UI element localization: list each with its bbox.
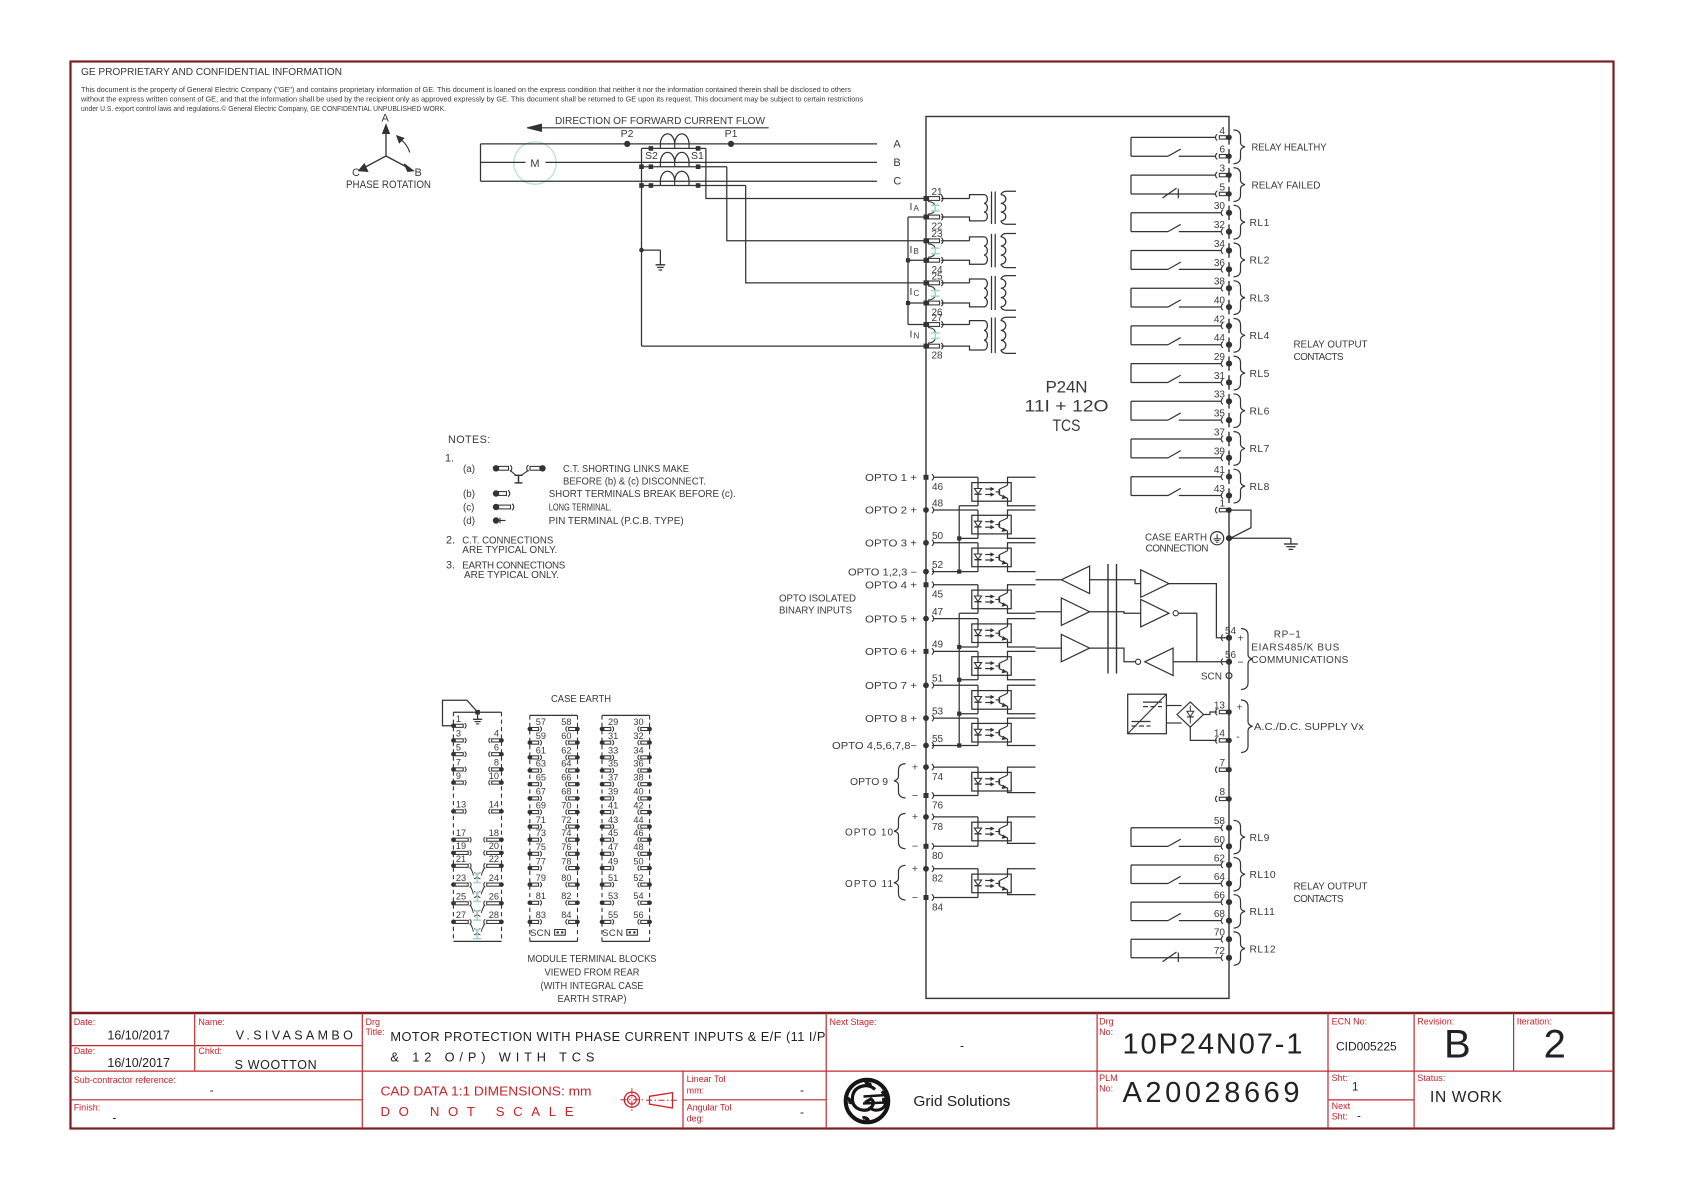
- block1 terminal 1: [451, 714, 466, 728]
- svg-text:C: C: [893, 176, 901, 188]
- terminal 36: [1221, 266, 1223, 272]
- terminal 41: [1221, 474, 1223, 480]
- block1 terminal 21/22: [451, 854, 504, 868]
- wire opto7 cathode to common bus: [959, 713, 978, 715]
- wire U4 to terminal 54: [1169, 584, 1226, 638]
- block terminal 61/62: [528, 746, 580, 760]
- svg-text:17: 17: [456, 828, 466, 838]
- svg-text:50: 50: [932, 531, 944, 542]
- svg-text:S WOOTTON: S WOOTTON: [235, 1058, 317, 1072]
- svg-text:52: 52: [633, 873, 643, 883]
- svg-text:under U.S. export control laws: under U.S. export control laws and regul…: [81, 104, 446, 113]
- terminal 46: [924, 475, 929, 480]
- terminal 48: [923, 507, 929, 513]
- wire bridge to terminal 14: [1190, 727, 1217, 740]
- svg-text:RELAY OUTPUT: RELAY OUTPUT: [1294, 340, 1368, 351]
- junction CT bus - phase C secondary: [639, 183, 644, 188]
- svg-text:64: 64: [561, 759, 571, 769]
- terminal 30: [1221, 210, 1223, 216]
- svg-text:V.SIVASAMBO: V.SIVASAMBO: [236, 1029, 353, 1043]
- svg-text:3: 3: [1219, 164, 1225, 175]
- block1 terminal 27/28: [451, 910, 504, 924]
- terminal 4: [1216, 134, 1218, 140]
- svg-text:62: 62: [1214, 853, 1226, 864]
- CT shorting link hooks 27/28: [928, 328, 935, 334]
- svg-text:55: 55: [932, 734, 944, 745]
- terminal 60: [1221, 843, 1223, 849]
- svg-text:Next Stage:: Next Stage:: [830, 1017, 877, 1027]
- svg-text:I: I: [910, 329, 913, 341]
- svg-text:−: −: [912, 790, 918, 802]
- svg-text:7: 7: [1219, 758, 1225, 769]
- terminal 6: [1216, 153, 1218, 159]
- svg-text:B: B: [1444, 1023, 1471, 1067]
- terminal 29: [1221, 361, 1223, 367]
- svg-text:57: 57: [536, 717, 546, 727]
- svg-text:(b): (b): [463, 489, 475, 500]
- svg-text:MOTOR PROTECTION WITH PHASE CU: MOTOR PROTECTION WITH PHASE CURRENT INPU…: [390, 1029, 825, 1044]
- svg-text:56: 56: [633, 910, 643, 920]
- terminal 34: [1221, 247, 1223, 253]
- case earth symbol: [1211, 532, 1224, 545]
- wire U3-U6 across barrier: [1090, 648, 1136, 662]
- brace RL5: [1234, 356, 1246, 390]
- svg-text:+: +: [912, 761, 918, 773]
- svg-text:Sht:: Sht:: [1332, 1073, 1348, 1083]
- title block grid: [71, 1013, 1614, 1129]
- wire opto 4-8 cathode bus: [959, 612, 978, 614]
- svg-text:RL5: RL5: [1250, 369, 1270, 380]
- svg-text:67: 67: [536, 787, 546, 797]
- relay contact RL3 (terminals 38/40): [1131, 288, 1221, 307]
- terminal 45: [924, 582, 929, 587]
- svg-text:5: 5: [456, 742, 461, 752]
- svg-text:CAD DATA 1:1 DIMENSIONS: mm: CAD DATA 1:1 DIMENSIONS: mm: [381, 1083, 592, 1098]
- svg-text:EARTH STRAP): EARTH STRAP): [558, 994, 627, 1005]
- svg-text:ARE TYPICAL ONLY.: ARE TYPICAL ONLY.: [462, 545, 557, 556]
- terminal 49: [924, 649, 929, 654]
- svg-text:23: 23: [932, 229, 944, 240]
- svg-text:25: 25: [932, 271, 944, 282]
- svg-text:OPTO 3 +: OPTO 3 +: [865, 539, 917, 550]
- svg-text:This document is the property: This document is the property of General…: [81, 85, 851, 94]
- svg-text:48: 48: [932, 498, 944, 509]
- svg-text:18: 18: [489, 828, 499, 838]
- svg-text:IN WORK: IN WORK: [1430, 1089, 1503, 1106]
- svg-text:37: 37: [1214, 427, 1226, 438]
- motor M: [514, 142, 556, 184]
- svg-text:I: I: [910, 244, 913, 256]
- block terminal 41/42: [600, 800, 652, 814]
- terminal 84: [924, 895, 929, 900]
- svg-text:OPTO 4 +: OPTO 4 +: [865, 581, 917, 592]
- svg-text:53: 53: [608, 891, 618, 901]
- GE logo: [846, 1080, 889, 1123]
- optocoupler OPTO 10: [934, 817, 1036, 846]
- svg-text:MODULE TERMINAL BLOCKS: MODULE TERMINAL BLOCKS: [528, 954, 657, 965]
- svg-text:78: 78: [932, 822, 944, 833]
- block1 terminal 9/10: [451, 771, 504, 785]
- terminal 23: [924, 238, 929, 243]
- brace RELAY FAILED: [1234, 168, 1246, 202]
- svg-text:70: 70: [561, 800, 571, 810]
- earth connection of CT common: [642, 250, 666, 270]
- svg-text:RL8: RL8: [1250, 482, 1270, 493]
- wire U6 to terminal 56: [1173, 661, 1226, 663]
- junction CT bus - phase B secondary: [639, 164, 644, 169]
- brace RL12: [1234, 932, 1246, 966]
- svg-text:PHASE ROTATION: PHASE ROTATION: [346, 179, 431, 191]
- relay contact RL7 (terminals 37/39): [1131, 439, 1221, 458]
- relay contact RL12 (terminals 70/72): [1131, 939, 1221, 962]
- block1 terminal 3/4: [451, 729, 504, 743]
- svg-text:60: 60: [561, 731, 571, 741]
- svg-text:SCN: SCN: [1201, 671, 1222, 682]
- junction opto3 cathode / terminal 52: [957, 570, 961, 574]
- svg-text:47: 47: [608, 842, 618, 852]
- svg-text:Finish:: Finish:: [74, 1103, 101, 1113]
- terminal 37: [1221, 436, 1223, 442]
- svg-text:43: 43: [608, 815, 618, 825]
- block1 terminal 23/24: [451, 873, 504, 887]
- block terminal 69/70: [528, 800, 580, 814]
- svg-text:OPTO 4,5,6,7,8−: OPTO 4,5,6,7,8−: [832, 741, 917, 752]
- block terminal 63/64: [528, 759, 580, 773]
- note 1a symbol - shorting link: [493, 465, 546, 483]
- svg-text:Drg: Drg: [1099, 1017, 1114, 1027]
- svg-text:(d): (d): [463, 516, 475, 527]
- brace RL10: [1234, 857, 1246, 891]
- svg-text:30: 30: [633, 717, 643, 727]
- svg-text:−: −: [912, 892, 918, 904]
- svg-text:66: 66: [561, 772, 571, 782]
- svg-text:−: −: [912, 841, 918, 853]
- svg-text:58: 58: [1214, 816, 1226, 827]
- svg-text:-: -: [210, 1083, 214, 1097]
- svg-text:RP−1: RP−1: [1274, 629, 1301, 640]
- relay contact RL4 (terminals 42/44): [1131, 326, 1221, 345]
- buffer U5 (right of barrier, inverting): [1141, 599, 1179, 627]
- svg-text:No:: No:: [1099, 1027, 1113, 1037]
- svg-text:75: 75: [536, 842, 546, 852]
- svg-text:69: 69: [536, 800, 546, 810]
- svg-text:45: 45: [608, 828, 618, 838]
- wire opto10 cathode to terminal 80: [934, 845, 978, 847]
- block terminal 57/58: [528, 717, 580, 731]
- svg-text:(a): (a): [463, 464, 475, 475]
- block1 terminal 7/8: [451, 758, 504, 772]
- block terminal 51/52: [600, 873, 652, 887]
- block terminal 67/68: [528, 787, 580, 801]
- svg-text:36: 36: [633, 759, 643, 769]
- svg-text:A20028669: A20028669: [1123, 1077, 1300, 1109]
- buffer U3 (transmit, left of barrier): [1036, 634, 1090, 662]
- terminal 25: [924, 280, 929, 285]
- svg-text:55: 55: [608, 910, 618, 920]
- block1 terminal 13/14: [451, 800, 504, 814]
- block terminal 55/56: [600, 910, 652, 924]
- terminal 40: [1221, 304, 1223, 310]
- svg-text:I: I: [910, 286, 913, 298]
- block1 terminal 5/6: [451, 742, 504, 756]
- brace RL11: [1234, 895, 1246, 929]
- svg-text:OPTO 9: OPTO 9: [850, 777, 888, 788]
- svg-text:A: A: [893, 138, 901, 150]
- projection symbol: [621, 1088, 679, 1111]
- svg-text:OPTO 10: OPTO 10: [845, 827, 893, 838]
- svg-text:48: 48: [633, 842, 643, 852]
- svg-text:39: 39: [608, 787, 618, 797]
- svg-text:RL7: RL7: [1250, 444, 1270, 455]
- wire U5 to terminal 56: [1178, 613, 1197, 662]
- terminal 74: [923, 764, 929, 770]
- svg-text:32: 32: [633, 731, 643, 741]
- svg-text:RELAY HEALTHY: RELAY HEALTHY: [1252, 143, 1327, 154]
- svg-text:(WITH INTEGRAL CASE: (WITH INTEGRAL CASE: [541, 981, 644, 992]
- svg-text:M: M: [530, 158, 539, 170]
- CT shorting link hooks 25/26: [928, 286, 935, 292]
- relay case outline P24N: [926, 117, 1229, 999]
- svg-text:TCS: TCS: [1053, 416, 1081, 435]
- optocoupler OPTO 11: [934, 869, 1036, 898]
- input transformer IA: [941, 191, 1016, 224]
- junction bus-terminal 26: [906, 301, 910, 305]
- svg-text:ARE TYPICAL ONLY.: ARE TYPICAL ONLY.: [464, 570, 559, 581]
- svg-text:5: 5: [1219, 182, 1225, 193]
- input transformer IC: [941, 276, 1016, 311]
- svg-text:77: 77: [536, 856, 546, 866]
- block terminal 79/80: [528, 873, 580, 887]
- CT shorting link 25/26: [934, 291, 936, 297]
- phase rotation diagram: [346, 113, 431, 192]
- svg-text:29: 29: [608, 717, 618, 727]
- svg-text:I: I: [910, 201, 913, 213]
- svg-text:SHORT TERMINALS BREAK BEFORE (: SHORT TERMINALS BREAK BEFORE (c).: [549, 489, 736, 500]
- terminal 5: [1216, 191, 1218, 197]
- terminal 43: [1221, 492, 1223, 498]
- block terminal 29/30: [600, 717, 652, 731]
- svg-text:P24N: P24N: [1046, 378, 1088, 397]
- svg-text:-: -: [112, 1111, 116, 1125]
- junction opto cathode: [957, 645, 961, 649]
- brace RL3: [1234, 281, 1246, 315]
- svg-text:NOTES:: NOTES:: [448, 434, 491, 446]
- svg-text:68: 68: [1214, 909, 1226, 920]
- svg-text:72: 72: [561, 815, 571, 825]
- svg-text:13: 13: [1214, 700, 1226, 711]
- svg-text:1: 1: [1352, 1082, 1358, 1094]
- svg-text:1.: 1.: [445, 453, 454, 465]
- AC/DC converter block: [1128, 694, 1167, 734]
- terminal 55: [932, 745, 959, 747]
- svg-text:2.: 2.: [446, 534, 455, 546]
- svg-text:OPTO 1 +: OPTO 1 +: [865, 473, 917, 484]
- brace RL2: [1234, 243, 1246, 277]
- svg-text:SCN: SCN: [530, 928, 551, 939]
- svg-text:46: 46: [932, 482, 944, 493]
- CT shorting link hooks 23/24: [928, 244, 935, 250]
- svg-text:EIARS485/K BUS: EIARS485/K BUS: [1251, 642, 1339, 653]
- svg-text:76: 76: [561, 842, 571, 852]
- terminal 7: [1216, 767, 1218, 773]
- svg-text:78: 78: [561, 856, 571, 866]
- svg-text:RL9: RL9: [1250, 833, 1270, 844]
- optocoupler OPTO 3: [934, 543, 1036, 572]
- svg-text:CONTACTS: CONTACTS: [1294, 352, 1344, 363]
- terminal 3: [1216, 172, 1218, 178]
- terminal 53: [923, 715, 929, 721]
- svg-text:27: 27: [456, 910, 466, 920]
- terminal 78: [923, 814, 929, 820]
- svg-text:42: 42: [633, 800, 643, 810]
- svg-text:OPTO 5 +: OPTO 5 +: [865, 614, 917, 625]
- svg-text:33: 33: [608, 746, 618, 756]
- wire U1-U4 across barrier: [1090, 580, 1141, 584]
- svg-text:16/10/2017: 16/10/2017: [107, 1029, 170, 1043]
- wire opto11 cathode to terminal 84: [934, 897, 978, 899]
- brace RL8: [1234, 469, 1246, 503]
- buffer U6 (receive, right of barrier, inverting): [1136, 648, 1174, 676]
- terminal 31: [1221, 379, 1223, 385]
- buffer U1 (receive, left of barrier): [1036, 566, 1090, 594]
- wire CT A secondary to terminal 21: [706, 148, 926, 198]
- terminal 52: [932, 571, 959, 573]
- svg-text:21: 21: [456, 854, 466, 864]
- svg-text:PLM: PLM: [1099, 1073, 1118, 1083]
- svg-text:-: -: [800, 1083, 804, 1097]
- svg-text:-: -: [960, 1039, 964, 1053]
- direction of forward current flow label and arrow: [527, 116, 769, 131]
- svg-text:74: 74: [561, 828, 571, 838]
- svg-text:46: 46: [633, 828, 643, 838]
- terminal 28: [924, 344, 929, 349]
- block1 terminal 17/18: [451, 828, 504, 842]
- svg-text:79: 79: [536, 873, 546, 883]
- svg-text:Date:: Date:: [74, 1046, 96, 1056]
- relay contact RELAY HEALTHY (terminals 4/6): [1131, 137, 1216, 156]
- block terminal 33/34: [600, 746, 652, 760]
- svg-text:35: 35: [1214, 409, 1226, 420]
- svg-text:9: 9: [456, 771, 461, 781]
- relay contact RL2 (terminals 34/36): [1131, 251, 1221, 270]
- svg-text:7: 7: [456, 758, 461, 768]
- CT on phase C: [642, 171, 746, 188]
- wire U2-U5 across barrier: [1090, 612, 1141, 614]
- svg-text:84: 84: [561, 910, 571, 920]
- terminal 82: [923, 866, 929, 872]
- svg-text:RL3: RL3: [1250, 293, 1270, 304]
- svg-text:73: 73: [536, 828, 546, 838]
- svg-text:B: B: [415, 167, 422, 179]
- block terminal 75/76: [528, 842, 580, 856]
- terminal 42: [1221, 323, 1223, 329]
- wire opto3 cathode to common bus: [959, 571, 978, 573]
- svg-text:deg:: deg:: [687, 1114, 705, 1124]
- terminal 22: [924, 215, 929, 220]
- wire phase A line: [481, 143, 878, 145]
- block1 terminal 19/20: [451, 841, 504, 855]
- svg-text:54: 54: [633, 891, 643, 901]
- terminal 8: [1216, 796, 1218, 802]
- svg-text:BINARY INPUTS: BINARY INPUTS: [779, 606, 852, 617]
- svg-text:A: A: [382, 113, 390, 125]
- block terminal 49/50: [600, 856, 652, 870]
- CT on phase A (P1/P2, S1/S2): [642, 134, 706, 151]
- svg-text:P2: P2: [621, 128, 634, 140]
- terminal 39: [1221, 455, 1223, 461]
- terminal 70: [1221, 936, 1223, 942]
- svg-text:without the express written co: without the express written consent of G…: [80, 95, 863, 104]
- block terminal 71/72: [528, 815, 580, 829]
- svg-text:N: N: [914, 332, 920, 341]
- svg-text:No:: No:: [1099, 1083, 1113, 1093]
- block terminal 37/38: [600, 772, 652, 786]
- svg-text:62: 62: [561, 746, 571, 756]
- svg-text:33: 33: [1214, 390, 1226, 401]
- svg-text:Grid Solutions: Grid Solutions: [913, 1093, 1010, 1110]
- wire opto 1-3 cathode bus: [959, 505, 978, 507]
- svg-text:A.C./D.C. SUPPLY Vx: A.C./D.C. SUPPLY Vx: [1254, 722, 1364, 733]
- svg-text:49: 49: [608, 856, 618, 866]
- svg-text:81: 81: [536, 891, 546, 901]
- block terminal 35/36: [600, 759, 652, 773]
- block terminal 59/60: [528, 731, 580, 745]
- svg-text:-: -: [1236, 731, 1240, 743]
- svg-text:COMMUNICATIONS: COMMUNICATIONS: [1251, 655, 1348, 666]
- CT shorting link 27/28: [934, 333, 936, 339]
- svg-text:28: 28: [489, 910, 499, 920]
- wire converter to bridge (upper): [1166, 705, 1181, 707]
- brace RL4: [1234, 318, 1246, 352]
- svg-text:RL4: RL4: [1250, 331, 1270, 342]
- svg-text:14: 14: [1214, 729, 1226, 740]
- relay contact RL11 (terminals 66/68): [1131, 902, 1221, 921]
- svg-text:24: 24: [489, 873, 499, 883]
- svg-text:RL12: RL12: [1250, 944, 1277, 955]
- case earth strap: [443, 700, 478, 726]
- optocoupler OPTO 9: [934, 767, 1036, 795]
- block SCN terminal: [602, 928, 637, 939]
- junction case earth on case: [1226, 535, 1232, 541]
- svg-text:P1: P1: [725, 128, 738, 140]
- svg-text:RELAY FAILED: RELAY FAILED: [1252, 180, 1321, 191]
- svg-text:52: 52: [932, 560, 944, 571]
- wire CT common bus: [641, 148, 643, 346]
- svg-text:SCN: SCN: [602, 928, 623, 939]
- svg-text:14: 14: [489, 800, 499, 810]
- svg-text:30: 30: [1214, 201, 1226, 212]
- svg-text:C.T. SHORTING LINKS MAKE: C.T. SHORTING LINKS MAKE: [563, 464, 689, 475]
- buffer U2 (transmit, left of barrier): [1036, 598, 1090, 626]
- earth strap junction: [475, 710, 480, 715]
- block terminal 81/82: [528, 891, 580, 905]
- svg-text:80: 80: [561, 873, 571, 883]
- optocoupler OPTO 5: [934, 619, 1036, 647]
- terminal SCN: [1226, 673, 1232, 679]
- CT shorting link 21/22: [934, 205, 936, 211]
- svg-text:1: 1: [456, 714, 461, 724]
- terminal 33: [1221, 398, 1223, 404]
- svg-text:C: C: [352, 167, 360, 179]
- svg-text:74: 74: [932, 772, 944, 783]
- svg-text:36: 36: [1214, 258, 1226, 269]
- svg-text:6: 6: [1219, 145, 1225, 156]
- svg-text:mm:: mm:: [687, 1086, 705, 1096]
- brace RL1: [1234, 205, 1246, 239]
- svg-text:OPTO 11: OPTO 11: [845, 879, 893, 890]
- svg-text:34: 34: [633, 746, 643, 756]
- svg-text:4: 4: [1219, 126, 1225, 137]
